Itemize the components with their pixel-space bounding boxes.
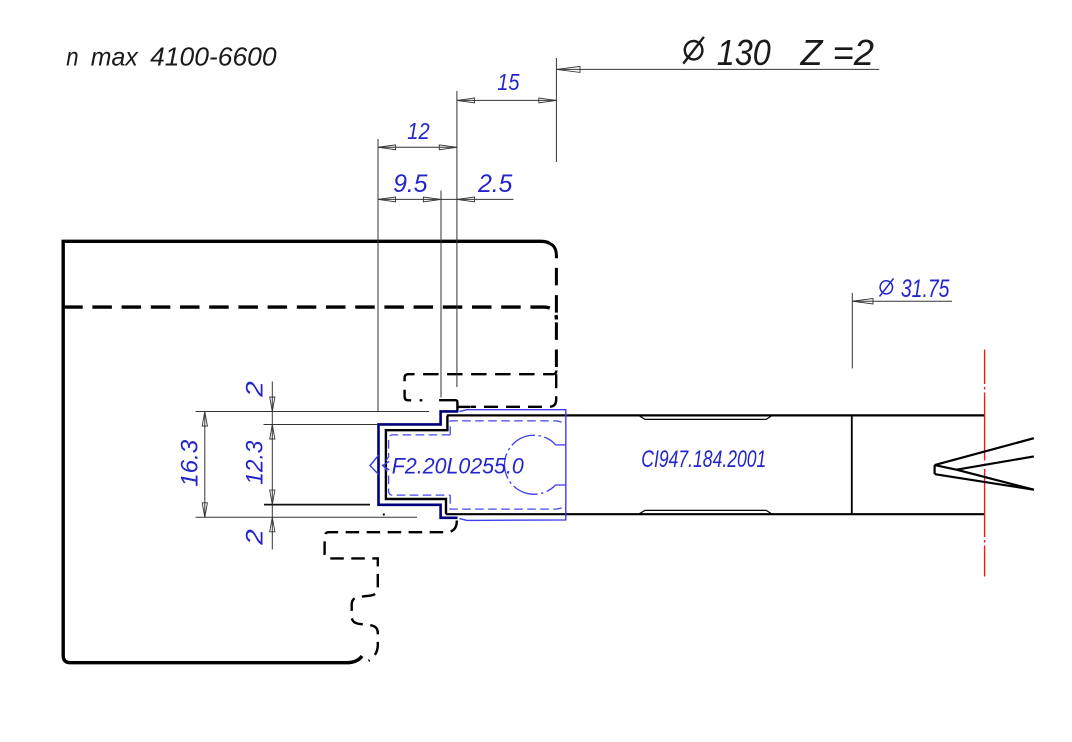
svg-text:2.5: 2.5 xyxy=(477,170,512,198)
hidden edge: dashed vertical right of body xyxy=(550,244,557,372)
svg-text:130: 130 xyxy=(717,32,771,73)
arrows dim 16.3 xyxy=(202,412,207,427)
dim line 9.5 / 2.5 xyxy=(378,198,514,200)
saw blade silhouette solid blue outline xyxy=(459,410,565,521)
svg-text:2: 2 xyxy=(242,381,269,398)
extension line y=411.5 xyxy=(196,411,429,413)
hidden edge: dashed zigzag below cutter xyxy=(325,521,457,661)
arrows dim 15 xyxy=(457,98,475,103)
svg-text:F2.20L0255.0: F2.20L0255.0 xyxy=(392,453,524,478)
arrowheads (outline) xyxy=(202,66,873,531)
blade drive slot top xyxy=(556,444,566,446)
centerline (red dash-dot) xyxy=(984,350,986,577)
cutter body black profile (inner) xyxy=(386,416,448,515)
saw blade hidden outline dashed blue bottom xyxy=(450,495,563,509)
svg-text:n: n xyxy=(66,41,78,71)
arrow leader dia130 xyxy=(556,66,580,72)
svg-text:16.3: 16.3 xyxy=(177,439,204,487)
arrows dim 12 xyxy=(378,145,396,150)
svg-text:12.3: 12.3 xyxy=(242,440,269,485)
extension line y=504.6 (heavier) xyxy=(264,504,370,506)
svg-text:12: 12 xyxy=(407,118,429,144)
machine body top-right rounded corner into hidden edge xyxy=(541,241,550,243)
hidden edge: dashed horizontal mid line xyxy=(63,307,556,319)
arrow leader dia31.75 xyxy=(852,299,873,305)
blade tooth chevron inner xyxy=(383,461,390,470)
extension line x=439.9 xyxy=(440,191,442,398)
leader dia130 xyxy=(556,68,879,70)
stray dot artifact xyxy=(383,513,385,515)
svg-text:2: 2 xyxy=(242,529,269,546)
blade tooth chevron outer xyxy=(370,455,379,474)
dim line 2/12.3/2 vertical xyxy=(271,382,273,550)
extension line x=556.4 top xyxy=(555,58,557,162)
cutter body black stub right of flange xyxy=(457,406,470,408)
shank wrench flat top xyxy=(639,415,773,419)
arrow dim 2.5 (outside, pointing left) xyxy=(457,197,475,202)
arrows dim 9.5 xyxy=(378,197,396,202)
svg-text:=2: =2 xyxy=(833,32,875,73)
extension line y=517.3 xyxy=(196,516,417,518)
shank wrench flat bottom xyxy=(639,510,773,514)
svg-text:max: max xyxy=(91,41,139,71)
saw blade inner dashed rectangle xyxy=(383,435,450,495)
hidden edge: dashed vertical lower segment to stub xyxy=(471,374,556,407)
dim line 12 xyxy=(378,146,457,148)
arrows dim 12.3 / 2 bottom xyxy=(270,490,275,505)
arbor shank top edge xyxy=(447,414,985,416)
extension line y=424.5 xyxy=(264,424,379,426)
extension line x=457.2 xyxy=(456,91,458,387)
svg-text:15: 15 xyxy=(497,69,519,95)
direction cone at right xyxy=(935,438,1034,490)
cutter body black flange top xyxy=(439,400,457,411)
extension line x=377.7 xyxy=(377,139,379,411)
svg-text:4100-6600: 4100-6600 xyxy=(150,41,277,71)
svg-text:CI947.184.2001: CI947.184.2001 xyxy=(641,446,766,473)
machine body outline (solid thick) xyxy=(63,241,541,662)
dia symbol small xyxy=(879,279,893,297)
dim line 15 xyxy=(457,99,557,101)
blade bore circle (dash-dot) xyxy=(505,435,556,494)
arbor shank bottom edge xyxy=(446,513,985,515)
hidden edge: dashed shoulder above cutter xyxy=(405,371,557,401)
svg-text:31.75: 31.75 xyxy=(901,275,950,303)
dia symbol big xyxy=(683,37,704,64)
cutter overlay navy profile (outer) xyxy=(379,411,459,517)
svg-text:Z: Z xyxy=(800,32,824,73)
dim line 16.3 vertical xyxy=(204,412,206,518)
leader dia31.75 xyxy=(852,300,952,302)
svg-text:9.5: 9.5 xyxy=(393,170,427,198)
shank section line xyxy=(851,415,853,514)
blade drive slot bottom xyxy=(556,484,566,486)
arrows dim 2 top (outside) xyxy=(270,397,275,412)
extension dia31.75 vertical xyxy=(851,293,853,369)
saw blade hidden outline dashed blue top xyxy=(450,421,563,435)
